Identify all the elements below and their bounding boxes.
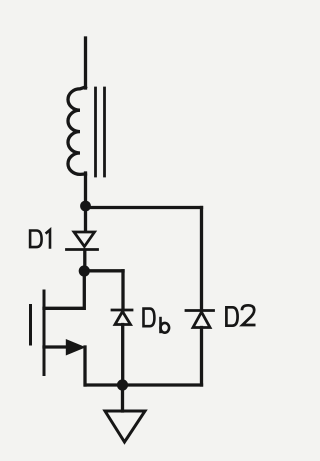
wire — [84, 38, 87, 88]
diode D1 — [67, 232, 98, 250]
ground — [105, 411, 145, 442]
wire — [86, 206, 202, 209]
node A — [80, 201, 91, 212]
node C — [117, 379, 128, 390]
wire — [121, 271, 124, 310]
wire — [200, 208, 203, 311]
wire — [121, 325, 124, 386]
diode Db — [112, 310, 132, 325]
label Db — [142, 307, 169, 333]
wire — [200, 328, 203, 386]
wire — [44, 271, 84, 308]
node B — [79, 265, 90, 276]
diode D2 — [186, 311, 214, 328]
wire — [84, 206, 87, 231]
wire — [121, 385, 124, 411]
wire — [83, 250, 86, 268]
transformer core — [96, 88, 105, 176]
label D1 — [29, 229, 50, 249]
wire — [84, 173, 87, 203]
wire — [84, 269, 123, 272]
transistor Q1 — [31, 291, 86, 385]
label D2 — [225, 305, 255, 327]
inductor L — [68, 87, 86, 174]
wire — [86, 383, 202, 386]
